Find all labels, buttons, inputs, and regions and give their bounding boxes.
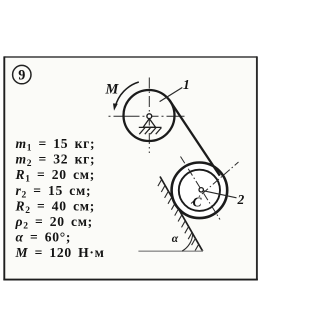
incline hatching (158, 179, 199, 251)
pulley 1 center pin (147, 114, 152, 119)
svg-text:α: α (172, 233, 179, 245)
leader line to label 1 (160, 88, 183, 102)
pulley 1 vertical centerline (148, 78, 150, 154)
wheel 2 centerline parallel to incline (181, 157, 221, 220)
moment M arc arrow (115, 82, 139, 107)
ground line at incline foot (138, 250, 203, 252)
svg-text:M: M (105, 82, 120, 98)
wheel 2 center pin (199, 188, 203, 192)
frame border (3, 56, 257, 280)
problem number badge 9 (13, 65, 31, 83)
pulley 1 support triangle (143, 119, 156, 128)
leader line to label 2 (203, 191, 237, 198)
card interior background (5, 58, 257, 279)
svg-text:2: 2 (237, 192, 245, 207)
moment M arrowhead (113, 103, 118, 110)
support hatching (139, 128, 161, 135)
svg-text:α = 60°;: α = 60°; (16, 230, 72, 245)
pulley 1 body (124, 90, 175, 141)
svg-text:M = 120 Н·м: M = 120 Н·м (15, 245, 105, 260)
wheel 2 inner radius circle (179, 170, 220, 211)
svg-text:C: C (193, 195, 203, 210)
svg-text:1: 1 (183, 77, 190, 92)
svg-text:9: 9 (18, 67, 25, 83)
pulley 1 horizontal centerline (109, 115, 185, 117)
angle alpha arc (182, 233, 193, 251)
rope from pulley 1 to wheel 2 (169, 100, 220, 176)
incline surface (160, 177, 203, 252)
wheel 2 centerline perpendicular to incline (191, 162, 239, 204)
support ground line (139, 126, 162, 128)
wheel 2 body (outer rim R2) (172, 163, 228, 219)
